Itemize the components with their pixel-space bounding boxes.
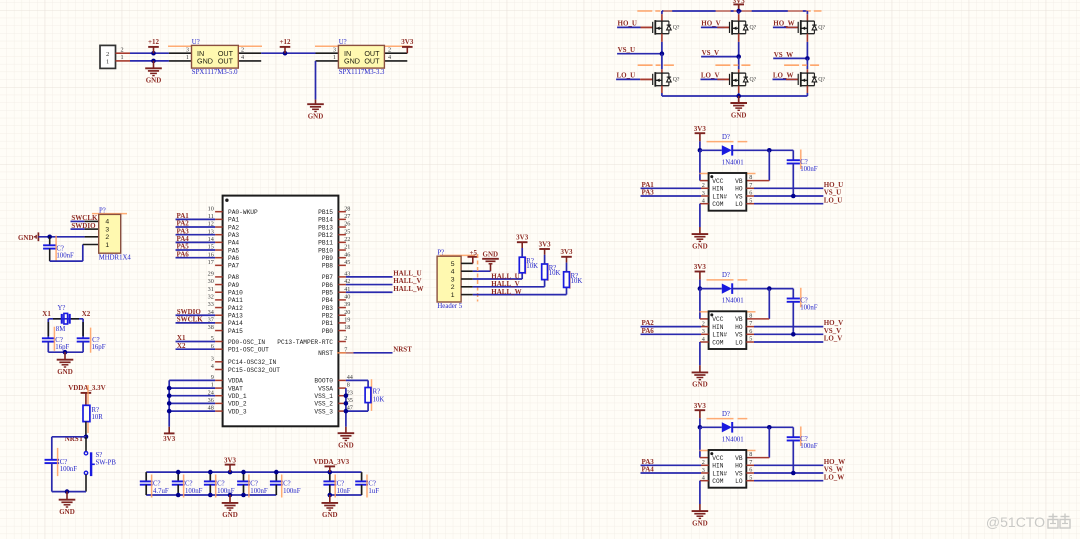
- svg-text:1: 1: [120, 54, 123, 61]
- transistor Q? high-side W: [786, 20, 825, 35]
- svg-text:100nF: 100nF: [283, 488, 301, 495]
- svg-text:1N4001: 1N4001: [722, 298, 744, 305]
- svg-text:NRST: NRST: [393, 345, 412, 353]
- svg-text:32: 32: [208, 293, 214, 300]
- capacitor C? 100nF (bank 2): [172, 472, 203, 495]
- wire xtal right leg: [82, 319, 84, 339]
- svg-text:100nF: 100nF: [56, 253, 74, 260]
- svg-text:4: 4: [105, 219, 109, 226]
- svg-text:PD0-OSC_IN: PD0-OSC_IN: [228, 339, 265, 346]
- orange marker (cap W): [800, 427, 802, 447]
- wire cap bank top rail: [146, 471, 361, 473]
- svg-text:27: 27: [344, 213, 350, 220]
- net label X2 (mcu): [176, 342, 216, 350]
- wire hall pin 1: [473, 287, 567, 294]
- net label X1 (xtal): [42, 310, 51, 318]
- net label SWDIO (mcu): [176, 308, 216, 316]
- svg-text:PB3: PB3: [322, 305, 333, 312]
- svg-text:BOOT0: BOOT0: [314, 378, 333, 385]
- svg-text:MHDR1X4: MHDR1X4: [99, 254, 132, 261]
- power 3V3 (cap bank): [224, 456, 237, 472]
- svg-text:3V3: 3V3: [163, 435, 176, 443]
- ground GND (driver U): [692, 227, 709, 250]
- ground GND (reset): [59, 492, 76, 516]
- net label PA1 (driver U hin): [641, 181, 709, 189]
- MCU right pin BOOT0: [314, 374, 352, 385]
- svg-text:VDD_1: VDD_1: [228, 393, 247, 400]
- diode D? 1N4001 (U): [700, 134, 744, 167]
- svg-text:3: 3: [451, 276, 455, 283]
- wire diode out U: [732, 149, 793, 151]
- svg-text:19: 19: [344, 316, 350, 323]
- net label PA6 (driver V lin): [641, 327, 709, 335]
- junction NRST: [84, 435, 89, 440]
- orange marker (pullup 2): [547, 264, 549, 282]
- capacitor C? 10nF (bank 6): [323, 472, 350, 495]
- svg-text:GND: GND: [322, 511, 338, 519]
- wire U2 gnd drop: [315, 61, 317, 100]
- svg-text:LO_W: LO_W: [824, 473, 845, 481]
- svg-text:17: 17: [208, 259, 214, 266]
- svg-text:+12: +12: [280, 38, 291, 46]
- svg-text:C?: C?: [283, 481, 291, 488]
- net label PA1 (mcu): [176, 212, 216, 220]
- orange marker (header5 vertical): [477, 254, 479, 302]
- svg-text:OUT: OUT: [364, 57, 380, 66]
- wire diode out W: [732, 426, 793, 428]
- svg-text:VS: VS: [735, 470, 743, 477]
- capacitor C? 100nF (bank 3): [204, 472, 235, 495]
- capacitor C? 100nF (driver U): [787, 150, 818, 196]
- svg-text:25: 25: [344, 228, 350, 235]
- MCU left pins PD0/PD1 osc: [211, 335, 269, 353]
- svg-text:PA5: PA5: [228, 247, 239, 254]
- header P? Header 5 box: [437, 249, 463, 309]
- svg-text:2: 2: [120, 46, 123, 53]
- wire bridge +12 top rail: [662, 10, 808, 12]
- wire diode out V: [732, 288, 793, 290]
- ground GND (swd, bar style): [18, 232, 38, 242]
- svg-text:HO: HO: [735, 463, 743, 470]
- wire cap bank bottom rail B: [330, 494, 362, 496]
- ground GND (xtal): [57, 352, 74, 376]
- wire R to VSS: [346, 403, 368, 412]
- orange marker (xtal c2): [90, 328, 92, 353]
- svg-text:HALL_U: HALL_U: [491, 272, 519, 280]
- orange marker (diode W): [707, 418, 748, 420]
- svg-text:VCC: VCC: [712, 316, 723, 323]
- junction driver W vcc: [698, 425, 703, 430]
- resistor R? 10K (pullup 1): [519, 257, 538, 273]
- svg-text:8: 8: [749, 174, 752, 181]
- orange marker (nrst pin): [337, 352, 354, 354]
- resistor R? 10K (boot0): [365, 388, 384, 404]
- power +5 (header5): [468, 249, 479, 264]
- orange marker (bank cap 4): [248, 475, 250, 498]
- svg-text:8: 8: [749, 313, 752, 320]
- orange marker (bank cap 6): [334, 475, 336, 498]
- orange marker (bank cap 1): [151, 475, 153, 498]
- switch S? SW-PB: [84, 437, 116, 492]
- svg-text:3: 3: [186, 46, 189, 53]
- svg-text:GND: GND: [308, 113, 324, 121]
- wire hall pin 3: [473, 273, 522, 279]
- wire bridge bottom rail: [662, 95, 808, 97]
- wire NRST to cap: [52, 437, 86, 460]
- svg-text:VB: VB: [735, 178, 743, 185]
- junction vs cap V: [791, 332, 796, 337]
- svg-text:1: 1: [333, 54, 336, 61]
- svg-text:VDDA_3.3V: VDDA_3.3V: [68, 384, 106, 392]
- net label HALL_V (mcu): [346, 277, 422, 285]
- wire source-to-VS W: [806, 34, 808, 59]
- svg-text:PA3: PA3: [228, 232, 239, 239]
- wire drain drop W: [806, 11, 808, 21]
- wire reset bottom: [52, 491, 86, 493]
- MCU right pins VSSA/VSS: [314, 382, 352, 416]
- junction driver U vb: [767, 148, 772, 153]
- svg-text:U?: U?: [192, 39, 200, 46]
- net label VS_U (driver): [746, 189, 841, 197]
- ground GND (U2): [307, 100, 324, 121]
- svg-text:1N4001: 1N4001: [722, 159, 744, 166]
- svg-text:C?: C?: [55, 337, 63, 344]
- net label NRST (reset): [65, 435, 84, 443]
- svg-text:3V3: 3V3: [694, 402, 707, 410]
- svg-text:PA8: PA8: [228, 274, 239, 281]
- wire input +12 rail: [130, 53, 169, 61]
- net label LO_W (driver): [746, 473, 844, 481]
- power +12 (mid): [280, 38, 291, 53]
- junction xtal gnd: [63, 350, 68, 355]
- svg-text:GND: GND: [344, 57, 360, 66]
- orange marker (bank cap 5): [281, 475, 283, 498]
- ground GND (driver V): [692, 365, 709, 388]
- net label PA5 (mcu): [176, 243, 216, 251]
- svg-text:VB: VB: [735, 316, 743, 323]
- net label SWDIO: [71, 222, 97, 230]
- svg-text:C?: C?: [185, 481, 193, 488]
- junction driver V vb: [767, 286, 772, 291]
- power 3V3 (pullup 1): [516, 234, 529, 258]
- svg-text:LO_U: LO_U: [824, 196, 843, 204]
- net label PA3 (mcu): [176, 227, 216, 235]
- net label X1 (mcu): [176, 334, 216, 342]
- orange marker (bank cap 3): [215, 475, 217, 498]
- svg-text:8: 8: [749, 451, 752, 458]
- junction reset gnd: [65, 489, 70, 494]
- orange marker (ic top U): [699, 173, 755, 175]
- svg-text:10K: 10K: [373, 397, 385, 404]
- svg-text:PA14: PA14: [228, 320, 243, 327]
- net label HO_W: [773, 19, 798, 27]
- svg-text:HO: HO: [735, 186, 743, 193]
- svg-text:VDD_3: VDD_3: [228, 408, 247, 415]
- capacitor C? 100nF (reset): [45, 459, 78, 492]
- svg-text:29: 29: [208, 271, 214, 278]
- svg-text:1: 1: [105, 242, 109, 249]
- svg-text:HIN: HIN: [712, 324, 723, 331]
- svg-text:Q?: Q?: [750, 25, 757, 31]
- svg-text:100nF: 100nF: [800, 443, 818, 450]
- orange marker (ic top V): [699, 311, 755, 313]
- svg-text:4.7uF: 4.7uF: [153, 488, 169, 495]
- svg-text:Q?: Q?: [818, 25, 825, 31]
- orange markers mid bridge: [638, 64, 820, 66]
- net label HO_W (driver): [746, 458, 845, 466]
- wire hall pin 2: [473, 280, 545, 287]
- net label PA2 (mcu): [176, 220, 216, 228]
- svg-text:D?: D?: [722, 411, 730, 418]
- power 3V3 (driver U): [694, 125, 707, 150]
- svg-text:PB8: PB8: [322, 263, 333, 270]
- orange marker (reset cap): [57, 448, 59, 476]
- MCU U? STM32 box: [223, 196, 339, 427]
- svg-text:4: 4: [241, 54, 244, 61]
- diode D? 1N4001 (W): [700, 411, 744, 444]
- svg-text:PA10: PA10: [228, 290, 243, 297]
- svg-text:GND: GND: [731, 111, 747, 119]
- svg-text:LO_W: LO_W: [773, 72, 794, 80]
- svg-text:Q?: Q?: [818, 77, 825, 83]
- svg-text:VDDA: VDDA: [228, 378, 243, 385]
- junction bank top dots: [176, 470, 332, 475]
- svg-text:3V3: 3V3: [516, 234, 529, 242]
- svg-text:VS: VS: [735, 332, 743, 339]
- transistor Q? low-side V: [717, 72, 756, 87]
- wire vb V: [746, 289, 769, 319]
- orange marker (boot R): [371, 379, 373, 411]
- power +12 (bridge top): [733, 0, 746, 11]
- svg-text:VCC: VCC: [712, 178, 723, 185]
- orange marker (bank cap 2): [183, 475, 185, 498]
- svg-text:R?: R?: [92, 407, 100, 414]
- svg-text:8: 8: [347, 382, 350, 389]
- svg-text:3: 3: [333, 46, 336, 53]
- power VDDA_3.3V: [68, 384, 106, 405]
- net label SWCLK (mcu): [176, 316, 216, 324]
- svg-text:10K: 10K: [549, 270, 561, 277]
- svg-text:S?: S?: [96, 452, 103, 459]
- junction swd gnd/cap: [47, 235, 52, 240]
- svg-text:1uF: 1uF: [368, 488, 379, 495]
- svg-text:21: 21: [344, 244, 350, 251]
- net label NRST (mcu): [346, 345, 412, 353]
- junction VS_W: [805, 56, 810, 61]
- svg-text:PA7: PA7: [228, 263, 239, 270]
- svg-text:8M: 8M: [56, 326, 65, 333]
- wire drain drop V: [738, 11, 740, 21]
- MCU right pins PB7-PB0: [322, 271, 351, 335]
- MCU right pin PC13: [277, 335, 347, 346]
- capacitor C? 100nF (bank 4): [237, 472, 268, 495]
- svg-text:VSS_3: VSS_3: [314, 408, 333, 415]
- power 3V3 (driver W): [694, 402, 707, 427]
- ground GND (input): [145, 61, 162, 85]
- wire com V: [700, 342, 709, 365]
- svg-text:LIN#: LIN#: [712, 470, 727, 477]
- wire low source drop W: [806, 86, 808, 96]
- wire U1 out to U2 in: [261, 52, 315, 54]
- junction VSS dots: [344, 393, 349, 413]
- svg-text:PC15-OSC32_OUT: PC15-OSC32_OUT: [228, 367, 280, 374]
- ground GND (vdda bank): [322, 495, 339, 519]
- junction vs cap U: [791, 194, 796, 199]
- net label VS_U: [617, 46, 662, 54]
- svg-text:PA6: PA6: [228, 255, 239, 262]
- svg-text:GND: GND: [146, 77, 162, 85]
- svg-text:PA11: PA11: [228, 297, 243, 304]
- svg-text:PB4: PB4: [322, 297, 333, 304]
- orange marker (cap U): [800, 150, 802, 170]
- svg-text:HIN: HIN: [712, 463, 723, 470]
- wire swd gnd: [38, 236, 84, 238]
- svg-text:VB: VB: [735, 455, 743, 462]
- svg-text:LO_U: LO_U: [617, 72, 636, 80]
- wire vb U: [746, 150, 769, 180]
- orange markers on top rail: [637, 10, 821, 12]
- regulator U? SPX1117M3-3.3: [316, 39, 408, 76]
- svg-text:4: 4: [211, 363, 214, 370]
- svg-text:NRST: NRST: [318, 350, 333, 357]
- MCU right pin NRST: [318, 346, 347, 357]
- orange marker (xtal c1): [53, 327, 55, 351]
- svg-text:+12: +12: [148, 38, 159, 46]
- orange marker above U1: [168, 45, 262, 47]
- svg-text:3V3: 3V3: [539, 240, 552, 248]
- wire VS-to-low-drain U: [661, 54, 663, 73]
- junction bridge supply: [736, 9, 741, 14]
- junction bank bottom dots: [176, 493, 332, 498]
- ground GND (driver W): [692, 504, 709, 527]
- svg-text:D?: D?: [722, 134, 730, 141]
- capacitor C? 4.7uF (bank 1): [140, 472, 169, 495]
- svg-text:PB9: PB9: [322, 255, 333, 262]
- svg-text:GND: GND: [483, 251, 499, 259]
- transistor Q? low-side U: [641, 72, 680, 87]
- svg-text:C?: C?: [800, 159, 808, 166]
- net label LO_W: [773, 72, 799, 80]
- svg-text:VCC: VCC: [712, 455, 723, 462]
- ground GND (header5, up): [473, 251, 499, 272]
- orange marker (pullup 3): [569, 271, 571, 289]
- svg-text:100nF: 100nF: [800, 305, 818, 312]
- svg-text:2: 2: [105, 234, 109, 241]
- svg-text:HIN: HIN: [712, 186, 723, 193]
- op-amp/driver IC U? (U): [702, 173, 753, 211]
- svg-text:10: 10: [208, 205, 214, 212]
- svg-text:Q?: Q?: [750, 77, 757, 83]
- svg-text:PB6: PB6: [322, 282, 333, 289]
- svg-text:C?: C?: [800, 297, 808, 304]
- svg-text:46: 46: [344, 251, 350, 258]
- orange marker (diode V): [707, 279, 748, 281]
- ground GND (bridge): [730, 96, 747, 119]
- MCU left pins PC14/PC15: [211, 355, 281, 373]
- wire drain drop U: [661, 11, 663, 21]
- transistor Q? low-side W: [786, 72, 825, 87]
- net label VS_V: [701, 49, 739, 57]
- net label SWCLK: [71, 214, 99, 222]
- net label VS_V (driver): [746, 327, 841, 335]
- svg-text:C?: C?: [217, 481, 225, 488]
- MCU left pins PA8-PA15: [208, 271, 244, 335]
- svg-text:30: 30: [208, 278, 214, 285]
- svg-text:LIN#: LIN#: [712, 332, 727, 339]
- svg-text:LO: LO: [735, 478, 743, 485]
- svg-text:P?: P?: [437, 249, 444, 256]
- svg-text:2: 2: [344, 335, 347, 342]
- svg-text:18: 18: [344, 324, 350, 331]
- svg-text:28: 28: [344, 205, 350, 212]
- net label LO_V (driver): [746, 335, 842, 343]
- wire com W: [700, 481, 709, 504]
- svg-text:HALL_W: HALL_W: [491, 288, 521, 296]
- svg-text:PA4: PA4: [228, 240, 239, 247]
- svg-text:GND: GND: [197, 57, 213, 66]
- svg-text:VSSA: VSSA: [318, 385, 333, 392]
- svg-text:100nF: 100nF: [800, 166, 818, 173]
- power 3V3 (pullup 2): [539, 240, 552, 264]
- svg-text:3V3: 3V3: [560, 248, 573, 256]
- svg-text:GND: GND: [18, 234, 34, 242]
- svg-text:GND: GND: [222, 511, 238, 519]
- svg-text:5: 5: [451, 261, 455, 268]
- svg-text:COM: COM: [712, 201, 723, 208]
- svg-text:LO_V: LO_V: [701, 72, 720, 80]
- svg-text:2: 2: [388, 46, 391, 53]
- svg-text:PD1-OSC_OUT: PD1-OSC_OUT: [228, 347, 269, 354]
- wire VS-to-low-drain V: [738, 57, 740, 74]
- svg-text:26: 26: [344, 221, 350, 228]
- wire low source drop U: [661, 86, 663, 96]
- svg-text:Header 5: Header 5: [437, 303, 462, 310]
- wire VSS bus: [345, 388, 347, 427]
- svg-text:PB0: PB0: [322, 328, 333, 335]
- svg-text:GND: GND: [692, 242, 708, 250]
- svg-text:100nF: 100nF: [185, 488, 203, 495]
- net label LO_U (driver): [746, 196, 842, 204]
- net label PA6 (mcu): [176, 250, 216, 258]
- svg-text:PB12: PB12: [318, 232, 333, 239]
- regulator U? SPX1117M3-5.0: [169, 39, 261, 76]
- watermark: [986, 514, 1070, 531]
- junction VS_V: [736, 54, 741, 59]
- transistor Q? high-side U: [641, 20, 680, 35]
- svg-text:PA1: PA1: [228, 217, 239, 224]
- capacitor C? 1uF (bank 7): [355, 472, 379, 495]
- svg-text:GND: GND: [338, 442, 354, 450]
- svg-text:SW-PB: SW-PB: [96, 460, 117, 467]
- power 3V3 (mcu vdd, down): [163, 427, 176, 443]
- svg-text:PB11: PB11: [318, 240, 333, 247]
- net label HALL_U (mcu): [346, 270, 422, 278]
- transistor Q? high-side V: [717, 20, 756, 35]
- svg-text:COM: COM: [712, 339, 723, 346]
- junction bridge gnd: [736, 94, 741, 99]
- wire swd cap to pin1: [50, 245, 83, 262]
- net label VS_W: [773, 51, 807, 59]
- orange marker (R 10R): [87, 385, 89, 433]
- svg-text:X1: X1: [42, 310, 51, 318]
- wire BOOT0 to R: [346, 380, 368, 387]
- svg-text:PB15: PB15: [318, 209, 333, 216]
- orange marker (pullup 1): [525, 257, 527, 275]
- svg-text:2: 2: [241, 46, 244, 53]
- svg-text:2: 2: [451, 284, 455, 291]
- svg-text:100nF: 100nF: [60, 466, 78, 473]
- svg-text:C?: C?: [250, 481, 258, 488]
